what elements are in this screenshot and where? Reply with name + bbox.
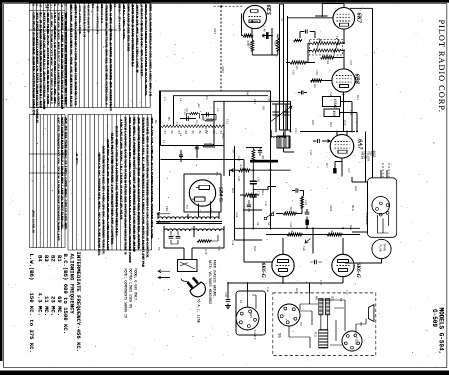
svg-text:17: 17 (39, 4, 43, 8)
oscillator coil L4 (271, 137, 285, 138)
svg-text:SWITCH ANT. 400V. 2 MEG. 2 MEG: SWITCH ANT. 400V. 2 MEG. 2 MEG. COND. 40 (135, 5, 139, 73)
note: dotted-line components text (124, 269, 138, 318)
svg-text:S5: S5 (277, 333, 281, 338)
wire screen supply row (161, 146, 225, 152)
svg-text:T2: T2 (335, 36, 339, 40)
wire main vertical feeders (161, 91, 230, 176)
socket V9 field plug (342, 331, 362, 351)
svg-text:455KC: 455KC (332, 99, 336, 109)
svg-text:SEC.: SEC. (209, 208, 213, 215)
svg-text:.25 450V.: .25 450V. (75, 153, 79, 166)
svg-text:6A7: 6A7 (357, 139, 364, 150)
svg-text:SPEAKER: SPEAKER (365, 212, 368, 225)
svg-text:MICA 400V. .05 PILOT OHMS OSC.: MICA 400V. .05 PILOT OHMS OSC. MMF. ANT.… (69, 5, 73, 107)
svg-text:C29: C29 (224, 292, 228, 298)
capacitor C29 line bypass (227, 283, 229, 299)
svg-text:L1: L1 (162, 140, 166, 144)
svg-text:R19: R19 (290, 231, 294, 237)
tube V2 6K7 (333, 7, 355, 29)
svg-text:R12: R12 (329, 122, 333, 128)
tube V3 6B8 (332, 69, 355, 92)
svg-text:BLACK: BLACK (364, 151, 367, 159)
svg-text:C35: C35 (319, 280, 323, 286)
svg-text:C3: C3 (163, 97, 167, 101)
svg-text:R27: R27 (295, 288, 299, 294)
wire band switch squiggle (161, 125, 225, 128)
svg-text:TO A.C. LINE: TO A.C. LINE (196, 299, 200, 323)
svg-text:R20: R20 (330, 231, 334, 237)
svg-text:R25: R25 (253, 246, 257, 252)
svg-text:B5: B5 (167, 117, 171, 121)
svg-text:6K6-G: 6K6-G (355, 263, 361, 278)
IF transformer T2 (310, 38, 343, 55)
svg-text:R22: R22 (354, 186, 358, 192)
svg-text:C12: C12 (226, 119, 230, 125)
svg-text:R17: R17 (325, 163, 329, 169)
svg-text:DOTTED LINES USED ON: DOTTED LINES USED ON (129, 269, 133, 309)
svg-text:RES. 16 450V. CONTROL .01 PAPE: RES. 16 450V. CONTROL .01 PAPER .006 TRI… (109, 5, 113, 111)
dashed box model G-509 speaker (273, 293, 376, 356)
svg-text:200V. BAND 20 RES. RES. PADD: 200V. BAND 20 RES. RES. PADD (127, 5, 131, 52)
variable capacitor C1 gang (270, 104, 292, 125)
svg-text:WATT MFD. 450V. 10 S.W. ELECT.: WATT MFD. 450V. 10 S.W. ELECT. TRANS. TR… (146, 117, 150, 258)
wire G-509 internal (289, 293, 366, 348)
svg-text:R8: R8 (261, 156, 265, 160)
alignment frequency note text (28, 252, 82, 353)
svg-text:B.C.(B5) 600 to 1500 KC.: B.C.(B5) 600 to 1500 KC. (62, 254, 69, 335)
svg-text:ANT: ANT (213, 28, 217, 34)
svg-text:C31: C31 (257, 191, 260, 196)
svg-text:C24: C24 (235, 212, 239, 218)
svg-text:450: 450 (332, 111, 336, 117)
svg-text:465KC. 25V. SWIT: 465KC. 25V. SWIT (118, 5, 122, 32)
svg-text:ELECT. 465KC. COIL 10 .01 .1 F: ELECT. 465KC. COIL 10 .01 .1 FILTER COIL… (115, 126, 119, 237)
capacitor C25 (305, 212, 310, 214)
svg-text:RES. CHOKE SWITCH 450V. 2 MEG.: RES. CHOKE SWITCH 450V. 2 MEG. VOL. 25V.… (128, 117, 132, 263)
svg-text:BLK: BLK (351, 205, 355, 212)
svg-text:R2: R2 (197, 104, 201, 108)
wire 6A7 top feed (300, 132, 355, 136)
svg-text:R11: R11 (356, 95, 360, 100)
speaker plug S4 (372, 239, 391, 258)
wire 6K7 plate feed (315, 3, 344, 16)
svg-text:L3: L3 (216, 108, 220, 112)
svg-text:V9: V9 (359, 322, 363, 326)
tube V4 6K6-G output 1 (272, 254, 294, 276)
capacitor C19 (196, 152, 198, 158)
border frame: top scan bar (0, 0, 449, 3)
border frame: left scan bar (0, 0, 3, 361)
wire 6A7 cathode drop (335, 158, 342, 176)
svg-text:FROM CHASSIS GROUND.: FROM CHASSIS GROUND. (213, 260, 217, 298)
socket box tuning eye cable (236, 291, 266, 335)
svg-text:SW: SW (246, 91, 250, 96)
capacitor C16 (302, 91, 304, 95)
capacitor C48 (266, 32, 269, 39)
speaker cone (368, 305, 374, 322)
capacitor C13 with R10 (180, 118, 196, 120)
capacitor C28 (247, 205, 251, 207)
svg-text:C16: C16 (292, 70, 296, 76)
svg-text:C7: C7 (175, 122, 179, 126)
svg-text:B4: B4 (37, 255, 44, 262)
svg-text:C34: C34 (231, 240, 235, 246)
wire antenna dashed feed (214, 5, 244, 7)
svg-text:400V. CONTROL PA: 400V. CONTROL PA (96, 5, 100, 35)
resistor R20 (327, 233, 342, 236)
parts list table 2 block B (68, 115, 152, 251)
svg-text:C11: C11 (253, 99, 257, 104)
electrolytic C30 C31 (252, 170, 254, 228)
svg-text:NOTE: COMPONENTS SHOWN IN: NOTE: COMPONENTS SHOWN IN (124, 269, 128, 318)
svg-text:SEC.: SEC. (331, 296, 334, 302)
svg-text:C37: C37 (345, 290, 349, 296)
wire field supply vertical (345, 132, 382, 264)
svg-text:C18: C18 (315, 70, 319, 76)
wire 6E5 cathode network (242, 14, 278, 56)
svg-text:ELECT. PILOT TUBE TONE MMF. .1: ELECT. PILOT TUBE TONE MMF. .1 S.W. SOCK… (111, 133, 115, 245)
wire B+ right feeder to speaker field (350, 8, 373, 177)
svg-text:FIELD: FIELD (355, 337, 358, 345)
wire output cathode row (228, 277, 343, 293)
svg-text:ANT. 2 MEG. CHOK: ANT. 2 MEG. CHOK (78, 5, 82, 35)
wire eye socket cable (248, 291, 257, 309)
svg-text:R7: R7 (239, 165, 243, 169)
resistor R21 (301, 196, 304, 208)
wire primary to line switch (164, 240, 224, 260)
svg-text:OSC: OSC (343, 120, 347, 126)
svg-text:6K6-G: 6K6-G (260, 263, 266, 278)
svg-text:FLD: FLD (371, 150, 375, 157)
border frame: bottom scan bar (0, 371, 449, 375)
wire 6K7 grid line (288, 17, 334, 19)
svg-text:S2: S2 (267, 222, 271, 226)
svg-text:R24: R24 (273, 41, 277, 47)
capacitor C14 (318, 139, 320, 143)
svg-text:C13: C13 (195, 120, 199, 126)
svg-text:R8: R8 (262, 106, 266, 110)
svg-text:C23: C23 (304, 200, 308, 206)
svg-text:6K7: 6K7 (356, 13, 363, 24)
resistor R7 (231, 169, 291, 171)
svg-text:.1 ELECT. CHOKE 10 16 OSC. 400: .1 ELECT. CHOKE 10 16 OSC. 400V. I.F. SO… (140, 5, 144, 78)
wire long vertical x234.5 (234, 146, 236, 230)
svg-text:C28: C28 (237, 176, 241, 182)
svg-text:C21: C21 (237, 156, 241, 162)
svg-text:TRIMMER 400V. .006 TRANS. 450V: TRIMMER 400V. .006 TRANS. 450V. RES. ANT… (105, 5, 109, 105)
svg-text:17: 17 (60, 4, 64, 8)
svg-text:R6: R6 (313, 84, 317, 88)
resistor R24 (276, 38, 279, 51)
oscillator coil L5 box (277, 132, 294, 153)
tube V7 6E5 tuning eye (243, 5, 266, 28)
svg-text:5V.: 5V. (157, 247, 161, 252)
wire 6B8 grid cap (311, 81, 344, 132)
svg-text:C10: C10 (268, 96, 272, 102)
svg-text:SWITCH 1 MEG. OHMS MICA COND.: SWITCH 1 MEG. OHMS MICA COND. 250,000 CO… (74, 5, 78, 106)
svg-text:200V. 500,000 SHIELD MMF. PAPE: 200V. 500,000 SHIELD MMF. PAPER PADDER 4… (64, 12, 68, 105)
wire socket pin leads (378, 215, 389, 233)
svg-text:GND: GND (221, 66, 225, 73)
svg-text:RES. COIL 500,000 SHIELD .01 C: RES. COIL 500,000 SHIELD .01 COIL 2 MEG.… (149, 5, 153, 97)
svg-text:PRI.: PRI. (165, 206, 169, 212)
output transformer T4 primary (319, 298, 330, 315)
svg-text:B6: B6 (154, 120, 158, 124)
capacitor C40 C41 heater bypass (169, 237, 174, 239)
wire step to output (253, 187, 276, 190)
parts list table 2 block A (30, 115, 66, 248)
svg-text:PAPER 20 PILOT SHIELD PILOT 8: PAPER 20 PILOT SHIELD PILOT 8 PAPER 20 T… (144, 5, 148, 96)
capacitor C23 (296, 188, 298, 192)
wire wave band arrows (158, 270, 170, 279)
capacitor C9 (258, 151, 262, 153)
svg-text:R2: R2 (91, 4, 95, 8)
svg-text:C48: C48 (263, 27, 267, 33)
capacitor C26 (315, 260, 317, 264)
svg-text:R23: R23 (231, 188, 235, 194)
svg-text:C5: C5 (205, 96, 209, 100)
svg-text:R10: R10 (311, 120, 315, 126)
svg-text:GREEN: GREEN (361, 151, 364, 159)
svg-text:MFD. 465KC. I.F. PADDER 16 WAT: MFD. 465KC. I.F. PADDER 16 WATT SOCKET .… (133, 117, 137, 252)
svg-text:C33: C33 (289, 222, 293, 228)
svg-text:PRI.: PRI. (315, 296, 318, 302)
svg-text:TRIMMER BAND 1 M: TRIMMER BAND 1 M (82, 5, 86, 37)
output transformer T4 secondary (319, 330, 328, 348)
svg-text:C27: C27 (347, 168, 351, 174)
wire transformer leads with arrows (157, 212, 170, 223)
shield box outlines (160, 91, 291, 211)
svg-text:6E5: 6E5 (265, 5, 272, 15)
svg-text:H.V.: H.V. (217, 246, 221, 252)
resistor R16 (243, 34, 252, 37)
svg-text:PLUG: PLUG (379, 245, 382, 252)
diode load boxes 455KC filter (323, 97, 341, 107)
speaker unit box (368, 178, 397, 238)
svg-text:6.3V: 6.3V (204, 249, 208, 256)
socket V10 eye socket (236, 307, 259, 330)
svg-text:C1C: C1C (294, 128, 298, 134)
svg-text:C32: C32 (264, 201, 268, 207)
svg-text:MODEL G-509 ONLY.: MODEL G-509 ONLY. (134, 269, 138, 303)
svg-text:S4: S4 (256, 222, 260, 226)
wire IF bypass (308, 50, 344, 62)
svg-text:200V. .006 TONE PAPER PADDER O: 200V. .006 TONE PAPER PADDER OHMS .006 I… (137, 117, 141, 249)
svg-text:L2: L2 (179, 133, 183, 137)
tube V5 5Z4-G rectifier (189, 180, 215, 206)
ground chassis (225, 304, 231, 309)
wire tuner links (276, 125, 291, 132)
svg-text:5Z4-G: 5Z4-G (218, 187, 224, 202)
capacitor C20 (179, 155, 183, 157)
svg-text:L.W.(B6): L.W.(B6) (28, 254, 35, 281)
resistor R15 (251, 40, 254, 51)
wire IF T2 connections (308, 29, 344, 69)
misc small part labels (154, 18, 375, 340)
svg-text:C14: C14 (204, 128, 208, 134)
svg-text:YELLOW: YELLOW (367, 151, 370, 161)
speaker socket S3 (372, 197, 390, 217)
svg-text:C36: C36 (266, 287, 270, 293)
wire output grid feeds (161, 160, 344, 263)
capacitor C22 (195, 147, 199, 149)
svg-text:R12: R12 (261, 190, 265, 196)
svg-text:TRIMMER PAPER 1 MEG. B.C. MMF.: TRIMMER PAPER 1 MEG. B.C. MMF. TRIMMER E… (141, 117, 145, 268)
wire 6A7 grid arrow (322, 140, 330, 143)
svg-text:R4: R4 (326, 61, 330, 65)
svg-text:R15: R15 (248, 43, 252, 49)
parts list table 1 block A (30, 3, 66, 108)
svg-text:T4: T4 (339, 298, 343, 302)
svg-text:C20: C20 (329, 92, 333, 98)
svg-text:G-509: G-509 (431, 309, 438, 327)
svg-text:V5: V5 (185, 205, 189, 209)
svg-text:C19: C19 (349, 60, 353, 66)
volume control R8 (250, 160, 278, 163)
switch S4 wave band (264, 217, 267, 220)
capacitor C17 (333, 168, 336, 174)
svg-text:S2: S2 (281, 18, 285, 22)
wire B+ bus lines (280, 4, 288, 130)
switch S1 line switch box (178, 260, 198, 272)
wire speaker leads (352, 170, 387, 232)
svg-text:BAND TUBE 20 BAND FILTER PAPER: BAND TUBE 20 BAND FILTER PAPER B.C (131, 5, 135, 68)
resistor R3 (294, 39, 302, 41)
svg-text:PILOT RADIO CORP.: PILOT RADIO CORP. (437, 20, 446, 113)
svg-text:.05 B.C. 2 MEG. 16 OSC.: .05 B.C. 2 MEG. 16 OSC. (122, 5, 126, 40)
tube V1 6A7 (330, 135, 354, 159)
svg-text:450V. 16 ANT. VOL. TUBE 25V. .: 450V. 16 ANT. VOL. TUBE 25V. .25 I.F. PA… (150, 117, 154, 239)
svg-text:8 SWITCH 8: 8 SWITCH 8 (100, 5, 104, 23)
resistor R30 heater hum (197, 240, 211, 243)
wire driver plate rails (235, 209, 361, 254)
svg-text:50,000 400V. 25V. S.W. .006 45: 50,000 400V. 25V. S.W. .006 450V. TRIMME… (106, 139, 110, 250)
svg-text:C25: C25 (309, 150, 313, 156)
resistor R4 (321, 56, 334, 59)
rectifier shield box (184, 174, 221, 212)
svg-text:MMF. TUBE TONE 2 MEG. 25V. 1 M: MMF. TUBE TONE 2 MEG. 25V. 1 MEG. 25V. O… (102, 146, 106, 255)
svg-text:CABLE: CABLE (253, 330, 257, 340)
power transformer T3 (156, 213, 224, 241)
svg-text:ELECT. ELECT. 20: ELECT. ELECT. 20 (87, 5, 91, 33)
svg-text:SWITCH LAMP OSC. BAND TONE PAP: SWITCH LAMP OSC. BAND TONE PAPER 20 FILT… (124, 117, 128, 255)
svg-text:4.3 MC.: 4.3 MC. (37, 293, 44, 317)
svg-text:SPKR: SPKR (383, 244, 386, 251)
svg-text:C30: C30 (257, 177, 260, 182)
resistor R14 (203, 144, 213, 147)
svg-text:OHMS S.W. OSC. PADDER MFD. 465: OHMS S.W. OSC. PADDER MFD. 465KC. MICA 2… (97, 153, 101, 257)
svg-text:GRN: GRN (329, 205, 333, 212)
AC plug P1 (181, 270, 209, 300)
resistor R9 vertical (246, 148, 262, 171)
svg-text:R18: R18 (289, 207, 293, 213)
svg-text:C8: C8 (185, 108, 189, 112)
wire B+ long vertical (271, 91, 291, 229)
svg-text:RES. COND. 20: RES. COND. 20 (32, 211, 36, 233)
svg-text:150 KC. to 375 KC.: 150 KC. to 375 KC. (28, 293, 35, 353)
socket V8 (278, 304, 300, 326)
svg-text:6E5: 6E5 (249, 313, 252, 318)
svg-text:C24: C24 (349, 110, 353, 116)
svg-text:OSC.: OSC. (221, 133, 225, 140)
capacitor C6 with R2 (201, 114, 216, 116)
svg-text:R26: R26 (349, 225, 353, 231)
resistor R5 (290, 61, 306, 64)
svg-text:FLD.: FLD. (314, 332, 317, 338)
svg-text:V8: V8 (299, 322, 303, 326)
wire rectifier filament leads (199, 202, 211, 218)
svg-text:R9: R9 (232, 150, 236, 154)
resistor R18 (283, 212, 296, 215)
svg-text:C1B: C1B (269, 131, 273, 137)
svg-text:C26: C26 (302, 246, 306, 252)
svg-text:450V. 25V. RES. TUBE 465KC. I.: 450V. 25V. RES. TUBE 465KC. I.F. 1 MEG. … (64, 117, 68, 230)
svg-text:T3: T3 (215, 172, 219, 176)
capacitor C15 (306, 30, 308, 34)
parts list table 1 block B (67, 3, 151, 108)
svg-text:L2: L2 (179, 98, 183, 102)
svg-text:NOTE: VOLTAGES MEASURED: NOTE: VOLTAGES MEASURED (208, 260, 212, 304)
resistor R19 (287, 233, 302, 236)
resistor R6 (311, 79, 322, 82)
svg-text:6B8: 6B8 (354, 74, 361, 84)
wire diode filter links (340, 102, 358, 132)
tube V4b 6K6-G output 2 (332, 254, 354, 276)
resistor R13 (240, 194, 244, 196)
svg-text:P2: P2 (239, 300, 243, 304)
wire phase arrow (305, 239, 311, 244)
